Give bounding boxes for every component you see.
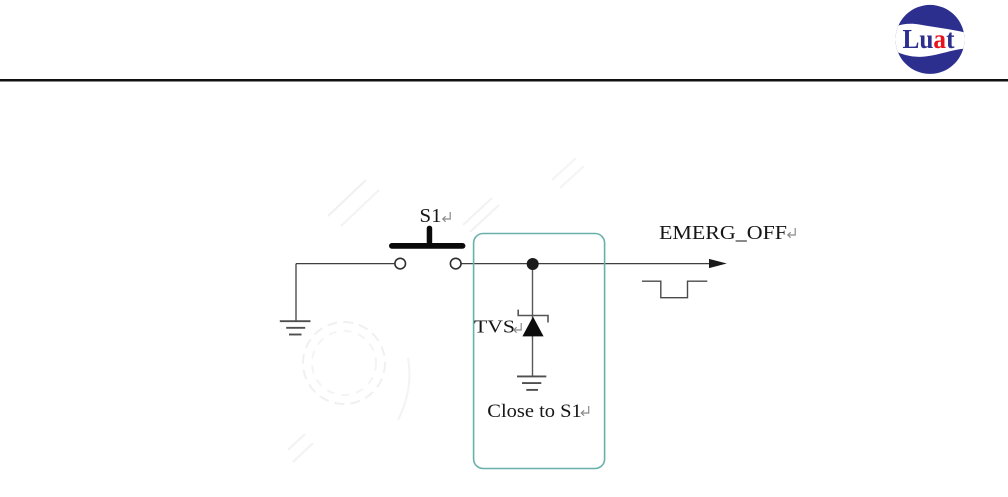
svg-text:Close to S1: Close to S1 [487,401,582,422]
svg-text:Luat: Luat [903,24,955,54]
svg-text:TVS: TVS [474,316,515,336]
svg-text:S1: S1 [420,206,442,227]
svg-text:EMERG_OFF: EMERG_OFF [659,223,787,244]
